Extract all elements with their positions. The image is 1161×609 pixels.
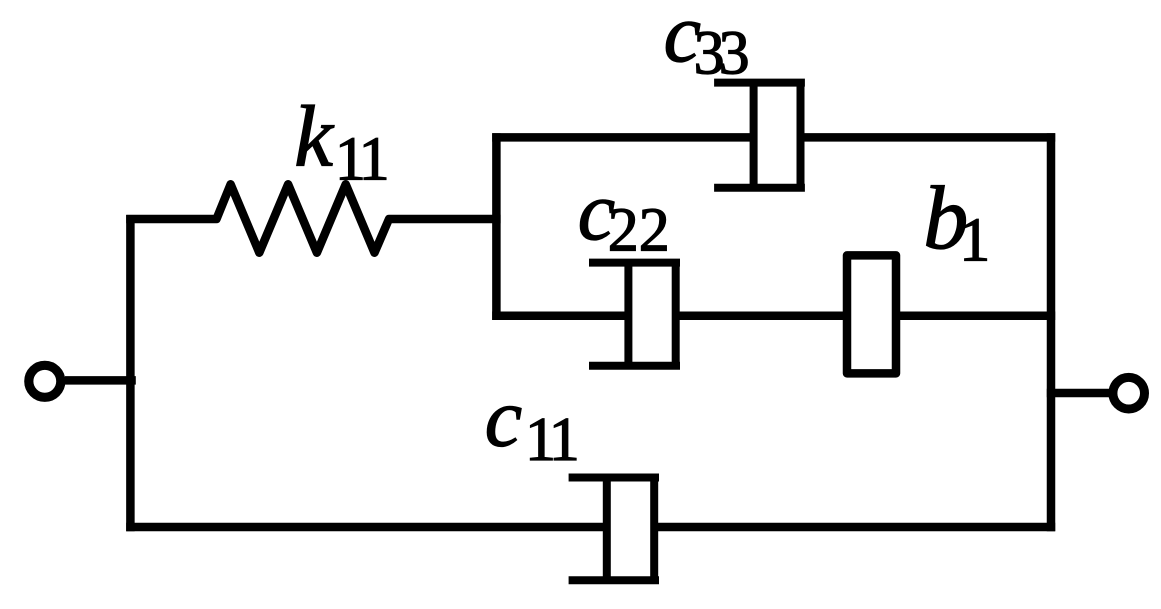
svg-text:11: 11 [335,125,387,193]
damper c22 [589,263,680,366]
svg-text:11: 11 [525,406,577,474]
wire node A vertical [492,133,501,320]
wire left vertical (node L) [126,215,135,531]
svg-text:k: k [294,87,334,184]
svg-text:1: 1 [959,207,990,275]
wire top branch left [492,133,753,142]
svg-text:c: c [485,372,522,465]
damper c33 [714,83,805,188]
mass element b1 [847,255,896,373]
label c22 [578,165,670,264]
label k11 [294,87,386,193]
label c33 [664,0,748,88]
damper c11 [569,478,659,581]
wire bottom branch left [126,523,607,532]
spring k11 [126,184,500,252]
wire middle branch right [896,312,1055,321]
terminal left [29,365,61,397]
wire middle branch center [676,312,847,321]
wire right vertical (node R) [1047,133,1056,531]
terminal right [1113,377,1145,409]
svg-text:22: 22 [608,197,670,265]
wire left terminal to node L [65,376,136,385]
wire middle branch left [492,312,628,321]
label b1 [923,169,990,275]
wire bottom branch right [654,523,1055,532]
svg-text:33: 33 [694,20,748,88]
label c11 [485,372,577,475]
wire right terminal [1047,389,1110,398]
wire top branch right [801,133,1056,142]
